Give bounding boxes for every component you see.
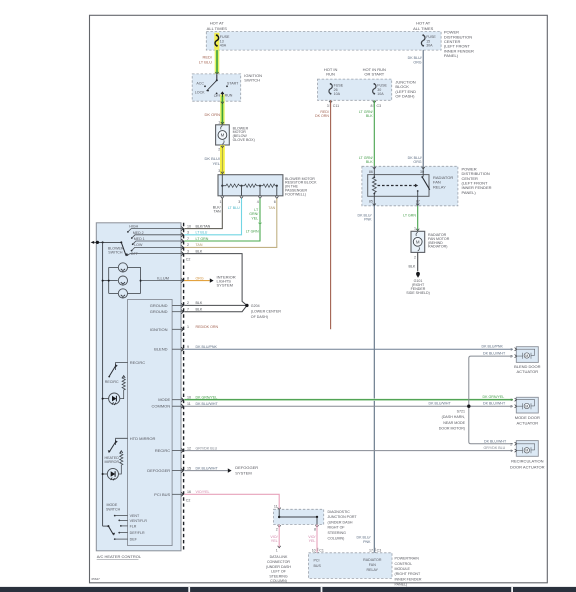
svg-text:DEFOGGER: DEFOGGER xyxy=(147,468,170,473)
wire DK GRN/YEL pin10 to mode door actuator pin1 xyxy=(184,395,513,400)
svg-text:HOT AT: HOT AT xyxy=(416,21,431,26)
node HOT IN RUN OR START (junction block fuse 30) xyxy=(363,67,386,77)
svg-text:2: 2 xyxy=(510,355,512,359)
splice S721 xyxy=(439,405,471,431)
pin chevrons on connector xyxy=(181,227,183,497)
heated mirror LED resistor xyxy=(119,451,123,474)
svg-text:2: 2 xyxy=(510,442,512,446)
contact FLR xyxy=(120,525,122,527)
svg-text:2: 2 xyxy=(276,527,278,531)
svg-text:SYSTEM: SYSTEM xyxy=(235,470,251,475)
svg-text:OF DASH): OF DASH) xyxy=(251,315,268,319)
power distribution center box (relay) xyxy=(362,166,492,206)
contact VENT xyxy=(114,515,116,517)
svg-text:DK BLU/WHT: DK BLU/WHT xyxy=(484,439,507,443)
pin 4 xyxy=(258,196,261,198)
svg-text:3: 3 xyxy=(187,249,189,253)
blower switch xyxy=(108,225,183,257)
blower motor M1 xyxy=(216,121,255,152)
svg-text:DK BLU/WHT: DK BLU/WHT xyxy=(483,402,506,406)
svg-text:PANEL): PANEL) xyxy=(462,190,477,195)
svg-text:05647: 05647 xyxy=(92,577,101,581)
wire DK BLU/WHT pin11 common to splice S721 and mode actuator pin2 xyxy=(184,402,513,407)
svg-text:6: 6 xyxy=(274,200,276,204)
svg-text:ACTUATOR: ACTUATOR xyxy=(516,369,538,374)
svg-text:HOT AT: HOT AT xyxy=(210,21,225,26)
svg-text:COLUMN): COLUMN) xyxy=(328,536,345,540)
svg-text:3: 3 xyxy=(187,231,189,235)
svg-text:BUS: BUS xyxy=(314,564,322,568)
wire VIO/YEL port pin8 to PCM pin10 xyxy=(308,525,317,553)
svg-text:ACTUATOR: ACTUATOR xyxy=(516,421,538,426)
wire ORG pin8 to interior lights system xyxy=(184,274,235,287)
wire VIO/YEL port pin2 to data link connector xyxy=(270,525,280,553)
svg-text:10A: 10A xyxy=(334,92,341,96)
wire RED/LT BLU fuse13 to ignition switch (highlighted) xyxy=(199,50,219,76)
pin 3 C11 xyxy=(327,101,339,108)
wire DK BLU/ORG fuse15 to relay pin30 xyxy=(408,50,424,166)
svg-text:85: 85 xyxy=(369,200,373,204)
svg-text:ILLUM: ILLUM xyxy=(157,275,169,280)
svg-text:POWERTRAIN: POWERTRAIN xyxy=(395,557,420,561)
svg-text:NEAR MODE: NEAR MODE xyxy=(443,421,465,425)
svg-text:DK GRN/YEL: DK GRN/YEL xyxy=(483,395,505,399)
svg-text:SWITCH: SWITCH xyxy=(244,78,260,83)
svg-text:(LOWER CENTER: (LOWER CENTER xyxy=(251,309,282,313)
svg-text:LT GRN: LT GRN xyxy=(246,230,259,234)
svg-text:11: 11 xyxy=(274,504,278,508)
lamp L1 xyxy=(118,263,127,272)
svg-text:SWITCH: SWITCH xyxy=(106,507,121,511)
wire DK BLU/PNK relay pin85 to PCM pin17 xyxy=(357,206,375,553)
svg-text:BLK: BLK xyxy=(196,249,203,253)
svg-text:FOOTWELL): FOOTWELL) xyxy=(285,192,306,196)
connector dashed line C1/C2 xyxy=(183,223,185,551)
heated mirror switch xyxy=(105,436,156,464)
svg-text:C2: C2 xyxy=(186,499,191,503)
svg-text:BLK: BLK xyxy=(366,160,373,164)
wire TAN resistor pin6 to control pin2 xyxy=(184,198,276,247)
contact HIGH xyxy=(127,231,129,233)
svg-text:DK ORN: DK ORN xyxy=(204,112,220,117)
svg-text:1: 1 xyxy=(510,398,512,402)
svg-text:SIDE SHIELD): SIDE SHIELD) xyxy=(406,291,430,295)
svg-text:PCI BUS: PCI BUS xyxy=(154,492,170,497)
node HOT IN RUN (junction block fuse 26) xyxy=(324,67,338,77)
svg-text:DK BLU/WHT: DK BLU/WHT xyxy=(196,466,219,470)
svg-text:DK BLU/WHT: DK BLU/WHT xyxy=(196,402,219,406)
svg-text:M: M xyxy=(525,449,528,453)
mode switch xyxy=(103,503,148,542)
svg-text:ALL TIMES: ALL TIMES xyxy=(207,26,228,31)
svg-text:MODE DOOR: MODE DOOR xyxy=(515,415,540,420)
powertrain control module box xyxy=(309,553,422,587)
svg-text:BLEND: BLEND xyxy=(154,347,167,352)
fuse F26 10A xyxy=(329,83,344,96)
lamp L3 xyxy=(118,289,127,298)
wire DK ORN ignition switch to blower motor (highlighted) xyxy=(204,75,224,125)
svg-text:8: 8 xyxy=(371,104,373,108)
pin 17 C3 xyxy=(369,548,381,554)
svg-text:M: M xyxy=(525,404,528,408)
resistor R1 xyxy=(226,184,239,187)
svg-text:M: M xyxy=(416,240,420,245)
blend door actuator xyxy=(510,347,540,375)
relay actuation link xyxy=(378,185,416,187)
svg-text:DOOR MOTOR): DOOR MOTOR) xyxy=(439,427,465,431)
svg-text:C11: C11 xyxy=(333,104,339,108)
svg-text:IGNITION: IGNITION xyxy=(150,327,168,332)
wire LT GRN/BLK junction block to relay pin86 xyxy=(359,100,374,166)
svg-text:2: 2 xyxy=(187,301,189,305)
wire VIO/YEL pin16 to diagnostic junction port xyxy=(184,494,280,509)
svg-text:RELAY: RELAY xyxy=(367,568,379,572)
ignition switch contacts xyxy=(195,74,239,101)
contact MED 1 xyxy=(132,243,134,245)
svg-text:30A: 30A xyxy=(426,44,433,48)
svg-text:3: 3 xyxy=(218,169,220,173)
svg-text:YEL: YEL xyxy=(271,539,278,543)
svg-text:4: 4 xyxy=(257,200,259,204)
svg-text:C3: C3 xyxy=(377,548,382,552)
fuse F30 10A xyxy=(373,83,388,96)
contact VENT/FLR xyxy=(118,520,120,522)
svg-text:OF DASH): OF DASH) xyxy=(395,94,415,99)
LED D1 recirc indicator xyxy=(102,393,120,405)
svg-text:RADIATOR): RADIATOR) xyxy=(428,245,447,249)
svg-text:9: 9 xyxy=(187,345,189,349)
svg-text:1: 1 xyxy=(510,449,512,453)
svg-text:BLK/TAN: BLK/TAN xyxy=(196,224,211,228)
relay coil xyxy=(373,176,375,178)
fuse F13 40A xyxy=(215,33,230,50)
svg-text:1: 1 xyxy=(414,227,416,231)
pin 3 xyxy=(240,196,243,198)
svg-text:FAN: FAN xyxy=(369,563,376,567)
svg-text:LOW: LOW xyxy=(134,243,143,247)
svg-text:PANEL): PANEL) xyxy=(444,53,459,58)
wire BLK pin7 to ground G204 xyxy=(184,305,247,311)
wire LT GRN/YEL resistor pin4 to control pin7 xyxy=(184,198,261,241)
pin 8 C3 xyxy=(371,101,382,108)
svg-text:LT GRN: LT GRN xyxy=(403,213,416,217)
svg-text:MED 2: MED 2 xyxy=(133,231,144,235)
contact MED 2 xyxy=(131,237,133,239)
wire ILLUM lamp bus to pin8 xyxy=(141,275,183,280)
svg-text:2: 2 xyxy=(414,255,416,259)
svg-text:2: 2 xyxy=(510,405,512,409)
svg-text:C3: C3 xyxy=(377,104,382,108)
svg-text:DK ORN: DK ORN xyxy=(315,114,329,118)
svg-text:(UNDER DASH: (UNDER DASH xyxy=(328,520,353,524)
wire BLK pin5 to ground G204 xyxy=(184,254,247,306)
pin 10 C1 xyxy=(312,548,324,554)
svg-text:PANEL): PANEL) xyxy=(395,583,408,587)
node HOT AT ALL TIMES (fuse 15) xyxy=(413,21,434,31)
svg-text:DK BLU/PNK: DK BLU/PNK xyxy=(482,345,504,349)
label power distribution center xyxy=(444,30,474,59)
svg-text:MED 1: MED 1 xyxy=(134,237,145,241)
svg-text:8: 8 xyxy=(314,527,316,531)
pin 1 xyxy=(221,196,224,198)
svg-text:10: 10 xyxy=(312,548,316,552)
resistor R2 xyxy=(245,184,257,187)
wire DK BLU/WHT splice bus vertical xyxy=(469,352,513,444)
bottom navigation bar xyxy=(0,587,576,592)
svg-text:GRY/DK BLU: GRY/DK BLU xyxy=(484,446,506,450)
pin labels rows xyxy=(186,224,219,502)
svg-text:G204: G204 xyxy=(251,304,260,308)
svg-text:7: 7 xyxy=(187,237,189,241)
svg-text:DK BLU/PNK: DK BLU/PNK xyxy=(196,345,218,349)
svg-text:MODULE: MODULE xyxy=(395,567,411,571)
illumination lamp bus xyxy=(102,242,142,526)
svg-text:SYSTEM: SYSTEM xyxy=(217,283,233,288)
svg-text:TAN: TAN xyxy=(214,210,221,214)
svg-text:15: 15 xyxy=(187,466,191,470)
svg-text:1: 1 xyxy=(187,325,189,329)
svg-text:START: START xyxy=(227,82,239,86)
svg-text:RIGHT OF: RIGHT OF xyxy=(328,526,346,530)
svg-text:RECIRCULATION: RECIRCULATION xyxy=(511,459,543,464)
svg-text:M: M xyxy=(525,354,528,358)
ground G101 xyxy=(406,272,430,295)
svg-text:MODE: MODE xyxy=(158,397,170,402)
pin 6 xyxy=(275,196,278,198)
LED D2 heated mirror indicator xyxy=(102,468,119,480)
svg-text:INNER FENDER: INNER FENDER xyxy=(395,577,422,581)
fuse F15 30A xyxy=(421,34,436,47)
svg-text:LT BLU: LT BLU xyxy=(199,60,212,65)
svg-text:10A: 10A xyxy=(377,92,384,96)
svg-text:COMMON: COMMON xyxy=(152,404,171,409)
svg-text:STEERING: STEERING xyxy=(328,531,347,535)
contact DEF xyxy=(114,538,116,540)
svg-text:VENT/FLR: VENT/FLR xyxy=(130,519,148,523)
resistor R3 xyxy=(263,184,275,187)
wire BLK pin2 to ground G204 xyxy=(184,304,247,306)
svg-text:CONNECTOR: CONNECTOR xyxy=(267,560,290,564)
wire LT BLU resistor pin3 to control pin3 xyxy=(184,198,241,234)
svg-text:GROUND: GROUND xyxy=(150,309,168,314)
svg-text:GRY/DK BLU: GRY/DK BLU xyxy=(196,446,218,450)
svg-text:LEFT OF: LEFT OF xyxy=(271,570,287,574)
svg-text:PNK: PNK xyxy=(364,218,372,222)
svg-text:87: 87 xyxy=(416,200,420,204)
svg-text:YEL: YEL xyxy=(251,216,258,220)
svg-text:LT BLU: LT BLU xyxy=(228,206,240,210)
svg-text:CONTROL: CONTROL xyxy=(395,562,413,566)
wire DK BLU/YEL blower motor to resistor block (highlighted) xyxy=(204,145,224,175)
svg-text:JUNCTION PORT: JUNCTION PORT xyxy=(328,515,358,519)
svg-text:HTD MIRROR: HTD MIRROR xyxy=(130,436,156,441)
svg-text:86: 86 xyxy=(369,170,373,174)
svg-text:YEL: YEL xyxy=(212,161,220,166)
svg-text:GROUND: GROUND xyxy=(150,303,168,308)
wire LT GRN relay pin87 to radiator fan motor xyxy=(403,206,419,232)
svg-text:11: 11 xyxy=(187,402,191,406)
wire BLK/TAN resistor pin1 to control pin10 xyxy=(184,198,222,228)
svg-text:STEERING: STEERING xyxy=(269,574,288,578)
contact OFF xyxy=(127,254,129,256)
lamp L2 xyxy=(118,276,127,285)
svg-text:LOCK: LOCK xyxy=(195,90,205,94)
svg-text:ALL TIMES: ALL TIMES xyxy=(413,26,434,31)
svg-text:LT BLU: LT BLU xyxy=(196,231,208,235)
svg-text:10: 10 xyxy=(187,224,191,228)
node HOT AT ALL TIMES (fuse 13) xyxy=(207,21,228,31)
svg-text:HIGH: HIGH xyxy=(129,225,138,229)
svg-text:RECIRC: RECIRC xyxy=(130,360,145,365)
data link connector xyxy=(266,555,291,583)
svg-text:FLR: FLR xyxy=(130,525,137,529)
contact LOW xyxy=(131,250,133,252)
ground G204 xyxy=(245,304,281,319)
svg-text:RECIRC: RECIRC xyxy=(155,448,170,453)
mode door actuator xyxy=(510,397,540,425)
svg-text:C1: C1 xyxy=(319,548,324,552)
svg-text:ORG: ORG xyxy=(413,60,421,64)
svg-text:DEF/FLR: DEF/FLR xyxy=(130,531,145,535)
svg-text:COLUMN): COLUMN) xyxy=(270,579,287,583)
svg-text:1: 1 xyxy=(276,549,278,553)
svg-text:RED/DK ORN: RED/DK ORN xyxy=(196,325,219,329)
svg-text:ACC: ACC xyxy=(196,82,204,86)
relay K1 radiator fan relay xyxy=(368,166,454,206)
svg-text:TAN: TAN xyxy=(196,243,203,247)
svg-text:DK BLU/WHT: DK BLU/WHT xyxy=(429,402,452,406)
svg-text:SWITCH: SWITCH xyxy=(108,251,123,255)
junction block box xyxy=(318,79,417,100)
A/C heater control box xyxy=(96,223,181,560)
svg-text:DOOR ACTUATOR: DOOR ACTUATOR xyxy=(510,464,545,469)
svg-text:17: 17 xyxy=(369,548,373,552)
svg-text:M: M xyxy=(221,133,225,138)
svg-text:BLK: BLK xyxy=(409,265,416,269)
svg-text:DK BLU/WHT: DK BLU/WHT xyxy=(483,352,506,356)
svg-text:3: 3 xyxy=(327,104,329,108)
svg-text:C2: C2 xyxy=(186,258,191,262)
contact DEF/FLR xyxy=(118,532,120,534)
power distribution center box (top) xyxy=(206,32,441,51)
svg-text:7: 7 xyxy=(187,308,189,312)
svg-text:OR START: OR START xyxy=(364,72,384,77)
wire DK BLU/WHT pin15 to defogger system xyxy=(184,465,258,475)
svg-text:(RIGHT FRONT: (RIGHT FRONT xyxy=(395,572,421,576)
node feed arrow (left) xyxy=(91,241,122,244)
svg-text:LT GRN: LT GRN xyxy=(196,237,209,241)
recirc switch xyxy=(105,360,145,384)
wire DK BLU/PNK pin9 to blend door actuator pin1 xyxy=(184,345,513,350)
svg-text:TAN: TAN xyxy=(268,206,275,210)
svg-text:DIAGNOSTIC: DIAGNOSTIC xyxy=(328,510,351,514)
wire BLK fan motor to ground G101 xyxy=(409,252,418,271)
svg-text:ORG: ORG xyxy=(413,160,421,164)
svg-text:RUN: RUN xyxy=(326,72,335,77)
internal pin leads from electronics box xyxy=(147,303,183,497)
svg-text:8: 8 xyxy=(187,276,189,280)
svg-text:12: 12 xyxy=(187,446,191,450)
recirc LED resistor xyxy=(120,376,125,399)
svg-text:PNK: PNK xyxy=(363,540,371,544)
svg-text:S721: S721 xyxy=(457,409,465,413)
svg-text:RUN: RUN xyxy=(225,93,233,97)
svg-text:PCI: PCI xyxy=(314,559,320,563)
svg-text:A/C HEATER CONTROL: A/C HEATER CONTROL xyxy=(97,554,142,559)
ignition switch box xyxy=(192,73,262,101)
svg-text:DEF: DEF xyxy=(130,538,138,542)
svg-text:OFF: OFF xyxy=(131,252,139,256)
svg-text:1: 1 xyxy=(218,121,220,125)
svg-text:RECIRC: RECIRC xyxy=(105,380,119,384)
svg-text:MIRROR: MIRROR xyxy=(105,460,120,464)
svg-text:1: 1 xyxy=(510,348,512,352)
svg-text:1: 1 xyxy=(220,200,222,204)
svg-text:RADIATOR: RADIATOR xyxy=(363,558,382,562)
svg-text:3: 3 xyxy=(238,200,240,204)
diagram frame xyxy=(90,15,548,583)
svg-text:GLOVE BOX): GLOVE BOX) xyxy=(233,138,255,142)
radiator fan motor M2 xyxy=(411,231,450,259)
relay switch arm xyxy=(422,166,424,176)
svg-text:16: 16 xyxy=(187,490,191,494)
svg-text:BLK: BLK xyxy=(366,114,373,118)
svg-text:ORG: ORG xyxy=(196,276,204,280)
svg-text:(UNDER DASH: (UNDER DASH xyxy=(266,565,291,569)
svg-text:BLK: BLK xyxy=(196,308,203,312)
svg-text:40A: 40A xyxy=(220,44,227,48)
svg-text:VENT: VENT xyxy=(130,514,140,518)
diagnostic junction port xyxy=(274,509,358,540)
recirculation door actuator xyxy=(510,441,545,470)
blower motor resistor block xyxy=(218,175,317,205)
wire GRY/DK BLU pin12 to recirculation door actuator pin1 xyxy=(184,446,513,451)
svg-text:VIO/YEL: VIO/YEL xyxy=(196,490,210,494)
svg-text:(DASH HARN,: (DASH HARN, xyxy=(442,415,465,419)
svg-text:DATA LINK: DATA LINK xyxy=(270,555,288,559)
svg-text:YEL: YEL xyxy=(309,539,316,543)
svg-text:RELAY: RELAY xyxy=(433,184,446,189)
svg-text:2: 2 xyxy=(187,243,189,247)
wire RED/DK ORN junction block to control pin1 xyxy=(315,100,331,329)
svg-text:BLK: BLK xyxy=(196,301,203,305)
